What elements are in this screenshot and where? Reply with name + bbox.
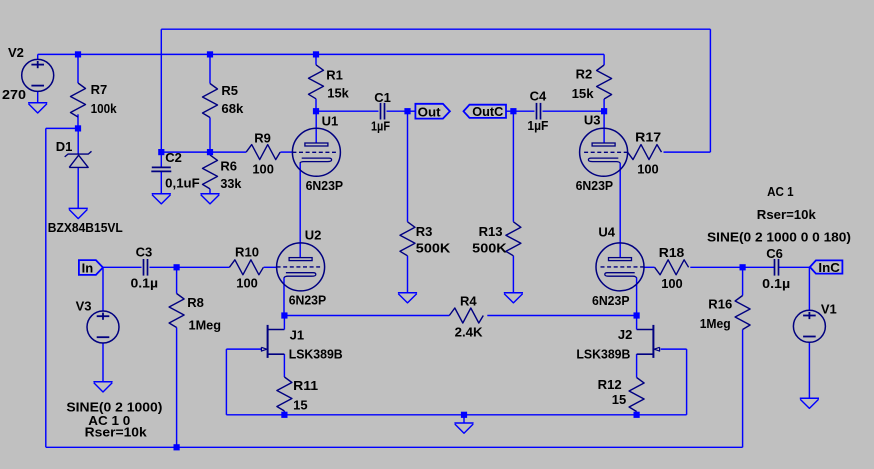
wire R6 bottom lead [209, 189, 211, 194]
svg-text:AC 1: AC 1 [767, 184, 794, 199]
svg-text:R11: R11 [293, 378, 318, 393]
svg-text:100: 100 [661, 276, 683, 291]
svg-text:6N23P: 6N23P [306, 178, 344, 193]
resistor R10 [229, 260, 263, 275]
svg-text:15: 15 [293, 397, 307, 412]
label R16 [708, 296, 732, 311]
value 6N23P U3 [576, 178, 614, 193]
wire R13 leads [512, 111, 514, 293]
label R1 [326, 67, 343, 82]
value 6N23P U4 [592, 293, 630, 308]
wire V2 ground stem [37, 91, 39, 102]
wire U2 cathode lead [283, 278, 285, 316]
resistor R6 [203, 155, 218, 189]
voltage source V3 [87, 311, 119, 343]
label V2 [8, 45, 24, 60]
svg-text:1µF: 1µF [371, 119, 390, 134]
value 15k R1 [327, 86, 349, 101]
label C4 [530, 88, 547, 103]
value 1uF C4 [527, 118, 548, 133]
wire U1 cathode to U2 plate [299, 163, 301, 258]
jfet J1 [261, 316, 284, 358]
value 500K R3 [416, 241, 451, 256]
jfet J2 [637, 316, 660, 358]
svg-text:100k: 100k [91, 101, 118, 116]
ground R6 [200, 194, 219, 204]
wire J2 gate loop [661, 349, 687, 415]
wire R8 leads [176, 267, 178, 447]
svg-text:D1: D1 [56, 139, 73, 154]
svg-text:J2: J2 [618, 327, 632, 342]
svg-text:J1: J1 [290, 327, 304, 342]
value AC V1 [767, 184, 794, 199]
svg-text:SINE(0 2 1000): SINE(0 2 1000) [66, 399, 162, 414]
wire left tall net [46, 128, 78, 447]
wire V1 ground stem [808, 342, 810, 398]
svg-text:1µF: 1µF [527, 118, 548, 133]
value AC V3 [88, 413, 130, 428]
svg-text:100: 100 [637, 162, 659, 177]
svg-text:LSK389B: LSK389B [576, 347, 630, 362]
svg-text:Rser=10k: Rser=10k [757, 207, 817, 222]
value 6N23P U2 [289, 293, 327, 308]
wire R2 leads [603, 54, 605, 111]
svg-text:100: 100 [236, 275, 257, 290]
svg-text:U3: U3 [584, 113, 601, 128]
net flag OutC [464, 104, 507, 119]
svg-text:R1: R1 [326, 67, 343, 82]
svg-text:R2: R2 [576, 67, 593, 82]
wire R12 leads [636, 354, 638, 415]
wire R1 leads [315, 54, 317, 111]
label D1 [56, 139, 73, 154]
svg-text:15k: 15k [572, 86, 595, 101]
label V1 [821, 301, 837, 316]
svg-text:U1: U1 [322, 113, 339, 128]
wire R18 to C6 node [690, 266, 742, 268]
label U1 [322, 113, 339, 128]
value 0.1u C6 [762, 276, 790, 291]
label U2 [305, 228, 322, 243]
label R3 [416, 224, 433, 239]
value 100 R9 [252, 162, 274, 177]
wire C1 to Out [387, 110, 416, 112]
ground D1 [69, 208, 88, 218]
value 100 R17 [637, 162, 659, 177]
ground V2 [28, 103, 47, 113]
label U4 [598, 225, 615, 240]
svg-text:6N23P: 6N23P [289, 293, 327, 308]
wire U4 grid to R18 [644, 266, 655, 268]
wire U3 cathode to U4 plate [619, 163, 621, 258]
triode U4 [596, 243, 644, 291]
label R8 [187, 295, 204, 310]
svg-text:R7: R7 [91, 82, 108, 97]
wire R16 bottom lead [742, 330, 744, 448]
wire C3 to R8 node [150, 266, 177, 268]
value 0,1uF [165, 175, 200, 190]
ground R13 [504, 293, 523, 303]
wire J1 gate loop [226, 349, 261, 415]
svg-text:R9: R9 [254, 130, 271, 145]
svg-text:V1: V1 [821, 301, 837, 316]
resistor R12 [629, 378, 644, 412]
triode U3 [580, 128, 628, 176]
wire V2 stub [37, 54, 39, 59]
resistor R2 [597, 65, 612, 99]
value 270 [2, 87, 26, 102]
wire V+ top rail [38, 53, 604, 55]
voltage source V2 [22, 59, 54, 91]
label C1 [374, 90, 391, 105]
label J2 [618, 327, 632, 342]
triode U2 [277, 243, 325, 291]
svg-text:6N23P: 6N23P [592, 293, 630, 308]
label R5 [221, 83, 238, 98]
svg-text:In: In [82, 261, 94, 276]
wire R17 lead [626, 151, 629, 153]
resistor R17 [628, 145, 662, 160]
value 100 R10 [236, 275, 257, 290]
capacitor C4 [537, 103, 541, 120]
ground mid rail [454, 423, 473, 433]
zener diode D1 [65, 151, 92, 167]
svg-text:V2: V2 [8, 45, 24, 60]
svg-text:0,1uF: 0,1uF [165, 175, 200, 190]
svg-text:V3: V3 [76, 299, 92, 314]
capacitor C3 [144, 259, 148, 276]
svg-text:R12: R12 [598, 377, 622, 392]
wire In to C3 [103, 266, 142, 268]
resistor R7 [71, 83, 86, 117]
wire In down to V3 [102, 267, 104, 311]
wire R11 leads [283, 354, 285, 415]
svg-text:R4: R4 [460, 294, 477, 309]
resistor R5 [203, 84, 218, 118]
svg-text:R8: R8 [187, 295, 204, 310]
svg-text:C6: C6 [766, 246, 783, 261]
label R11 [293, 378, 318, 393]
label R9 [254, 130, 271, 145]
value 0.1u C3 [131, 276, 159, 291]
label R10 [235, 244, 259, 259]
wire R7 leads [77, 54, 79, 128]
label V3 [76, 299, 92, 314]
value 100k [91, 101, 118, 116]
resistor R18 [655, 260, 689, 275]
label C6 [766, 246, 783, 261]
svg-text:OutC: OutC [472, 104, 504, 119]
label R6 [220, 158, 237, 173]
value 68k [221, 101, 244, 116]
ground V1 [800, 398, 819, 408]
svg-text:68k: 68k [221, 101, 244, 116]
wire mid ground stem [463, 415, 465, 423]
resistor R1 [309, 65, 324, 99]
ground C2 [152, 194, 171, 204]
wire R5 leads [209, 54, 211, 152]
svg-text:LSK389B: LSK389B [289, 347, 343, 362]
wire top feedback line [161, 29, 710, 152]
svg-text:InC: InC [818, 260, 840, 275]
value 1Meg R8 [189, 318, 222, 333]
wire D1 leads [77, 128, 79, 208]
svg-text:SINE(0 2 1000 0 0 180): SINE(0 2 1000 0 0 180) [707, 230, 851, 245]
svg-text:R17: R17 [635, 129, 661, 144]
svg-text:R3: R3 [416, 224, 433, 239]
wire C2 leads [160, 152, 162, 194]
net flag InC [810, 260, 843, 275]
ground V3 [93, 382, 112, 392]
label R18 [659, 245, 685, 260]
value Rser V3 [85, 425, 148, 440]
capacitor C6 [775, 259, 779, 276]
wire node to C6 [743, 266, 775, 268]
label C2 [165, 150, 182, 165]
label C3 [136, 244, 153, 259]
svg-text:100: 100 [252, 162, 274, 177]
svg-text:1Meg: 1Meg [189, 318, 222, 333]
value 2.4K [455, 324, 484, 339]
svg-text:R18: R18 [659, 245, 685, 260]
net flag In [79, 260, 103, 276]
svg-text:C3: C3 [136, 244, 153, 259]
wire R16 top lead [742, 267, 744, 295]
resistor R8 [169, 294, 184, 328]
wire C4 to R2 node [543, 110, 605, 112]
value 15 R12 [612, 392, 626, 407]
svg-text:C4: C4 [530, 88, 547, 103]
svg-text:U4: U4 [598, 225, 615, 240]
svg-text:15: 15 [612, 392, 626, 407]
svg-text:R13: R13 [479, 224, 503, 239]
label R12 [598, 377, 622, 392]
resistor R3 [400, 222, 415, 256]
wire ground rail [226, 414, 686, 416]
wire C2-R6 link [161, 151, 210, 153]
resistor R9 [246, 145, 280, 160]
label R13 [479, 224, 503, 239]
svg-text:C2: C2 [165, 150, 182, 165]
svg-text:0.1µ: 0.1µ [762, 276, 790, 291]
svg-text:500K: 500K [472, 241, 507, 256]
wire bottom rail [46, 446, 743, 448]
value 33k [220, 176, 242, 191]
wire R10 to U2 grid [264, 266, 277, 268]
svg-text:33k: 33k [220, 176, 242, 191]
label J1 [290, 327, 304, 342]
svg-text:0.1µ: 0.1µ [131, 276, 159, 291]
value SINE V3 [66, 399, 162, 414]
triode U1 [292, 128, 340, 176]
wire node to R10 [177, 266, 230, 268]
value Rser V1 [757, 207, 817, 222]
voltage source V1 [793, 310, 825, 342]
value SINE V1 [707, 230, 851, 245]
capacitor C1 [381, 103, 385, 120]
value 1uF C1 [371, 119, 390, 134]
resistor R11 [277, 377, 292, 411]
svg-text:15k: 15k [327, 86, 349, 101]
value 15k R2 [572, 86, 595, 101]
wire InC down to V1 [808, 267, 810, 311]
value 1Meg R16 [700, 316, 731, 331]
wire U1 plate lead [315, 111, 317, 143]
svg-text:Rser=10k: Rser=10k [85, 425, 148, 440]
wire V3 ground stem [102, 343, 104, 382]
value LSK389B J1 [289, 347, 343, 362]
svg-text:BZX84B15VL: BZX84B15VL [48, 220, 123, 235]
svg-text:C1: C1 [374, 90, 391, 105]
svg-text:2.4K: 2.4K [455, 324, 484, 339]
value 500K R13 [472, 241, 507, 256]
wire U3 plate lead [603, 111, 605, 143]
label U3 [584, 113, 601, 128]
svg-text:500K: 500K [416, 241, 451, 256]
wire OutC to C4 [506, 110, 534, 112]
resistor R4 [449, 308, 483, 323]
value 100 R18 [661, 276, 683, 291]
svg-text:270: 270 [2, 87, 26, 102]
wire U4 cathode lead [636, 278, 638, 316]
wire C6 to InC [779, 266, 810, 268]
wire tail rail right [487, 315, 636, 317]
label R7 [91, 82, 108, 97]
svg-text:Out: Out [418, 104, 442, 119]
svg-text:R6: R6 [220, 158, 237, 173]
value BZX84B15VL [48, 220, 123, 235]
svg-text:6N23P: 6N23P [576, 178, 614, 193]
net flag Out [415, 104, 450, 120]
wire tail rail left [284, 315, 449, 317]
wire node plate1 to C1 [316, 110, 379, 112]
label R17 [635, 129, 661, 144]
resistor R13 [506, 222, 521, 256]
value LSK389B J2 [576, 347, 630, 362]
svg-text:R5: R5 [221, 83, 238, 98]
wire R9 leads [210, 151, 293, 153]
resistor R16 [735, 296, 750, 330]
wire R3 leads [407, 111, 409, 293]
ground R3 [398, 293, 417, 303]
svg-text:1Meg: 1Meg [700, 316, 731, 331]
value 6N23P U1 [306, 178, 344, 193]
capacitor C2 [151, 167, 171, 171]
value 15 R11 [293, 397, 307, 412]
label R4 [460, 294, 477, 309]
svg-text:R16: R16 [708, 296, 732, 311]
svg-text:U2: U2 [305, 228, 322, 243]
label R2 [576, 67, 593, 82]
svg-text:R10: R10 [235, 244, 259, 259]
